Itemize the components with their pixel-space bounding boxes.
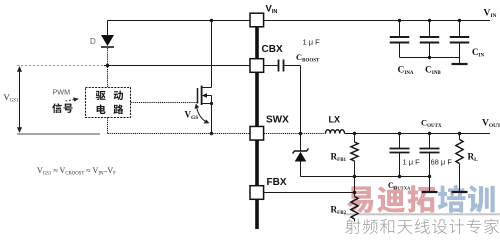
pad VIN [250, 13, 264, 27]
capacitor CBOOST [264, 60, 301, 134]
svg-text:68 μ F: 68 μ F [431, 158, 453, 167]
node junction CINB-rail [428, 19, 431, 22]
node junction FBX-RFB2 [353, 191, 356, 194]
wire box bottom to SWX line [107, 118, 109, 134]
pad FBX [250, 186, 264, 200]
capacitor CIN column x=399.5 [390, 21, 410, 58]
watermark tagline 射频和天线设计专家 [345, 219, 499, 234]
VGS1 measure arrow [17, 66, 22, 133]
wire gate drive [131, 102, 198, 104]
node junction COUTXA-bot [398, 175, 401, 178]
svg-text:LX: LX [329, 115, 341, 125]
label 电路 [97, 104, 124, 114]
node junction RFB-mid [353, 175, 356, 178]
diode D [101, 21, 114, 48]
pad CBX [250, 59, 264, 73]
svg-text:D: D [90, 37, 96, 46]
svg-text:CBX: CBX [262, 44, 283, 55]
node junction RL-out [458, 132, 461, 135]
wire CIN bottoms [400, 57, 460, 59]
capacitor COUTX 68uF [420, 134, 440, 193]
node junction COUTXA-out [398, 132, 401, 135]
wire CBX boost rail [104, 65, 250, 67]
VGS curved arrow [195, 104, 210, 124]
wire FBX horizontal [264, 192, 355, 194]
resistor RL [452, 134, 468, 193]
wire diode cathode to drive box [107, 48, 109, 88]
node junction RFB1-out [353, 132, 356, 135]
capacitor CIN column x=429.5 [420, 21, 440, 58]
dashed annotation line top [17, 65, 104, 67]
wire LX to VOUT [345, 133, 491, 135]
node junction zener-SWX [299, 132, 302, 135]
capacitor CIN column x=459.5 [450, 21, 470, 58]
resistor RFB1 [351, 134, 358, 177]
svg-text:SWX: SWX [266, 115, 289, 126]
svg-text:1 μ F: 1 μ F [403, 158, 421, 167]
node junction CIN-rail [458, 19, 461, 22]
wire SWX pad to LX [264, 133, 326, 135]
wire SWX horizontal left [108, 133, 251, 135]
watermark logo text 易迪拓培训 [347, 185, 495, 213]
node junction diode-CBX [106, 64, 109, 67]
wire top VIN rail [108, 20, 491, 22]
node junction CINB-bot [428, 56, 431, 59]
ground CIN [452, 58, 468, 65]
svg-text:PWM: PWM [53, 87, 71, 96]
node junction source-SWX [210, 132, 213, 135]
node junction COUTX-mid [428, 175, 431, 178]
wire RFB mid to FBX node [354, 177, 356, 193]
inductor LX [326, 130, 345, 134]
svg-text:1 μ F: 1 μ F [303, 38, 321, 47]
label 信号 [52, 103, 72, 113]
resistor RFB2 [351, 193, 358, 222]
transistor Q1 MOSFET [198, 21, 214, 134]
svg-text:FBX: FBX [267, 177, 287, 188]
pad SWX [250, 126, 264, 140]
zener diode Z1 [293, 134, 309, 177]
capacitor COUTXA 1uF [390, 134, 410, 177]
node junction COUTX-out [428, 132, 431, 135]
watermark underline [344, 213, 500, 215]
drive circuit box U1 [86, 88, 131, 118]
bus vertical [255, 21, 259, 230]
PWM dashed arrow [66, 97, 80, 101]
annotation line bottom [17, 133, 100, 135]
node junction drain-rail [210, 19, 213, 22]
label 驱动 [96, 91, 123, 100]
wire zener bottom rail [301, 176, 430, 178]
node junction CINA-rail [398, 19, 401, 22]
